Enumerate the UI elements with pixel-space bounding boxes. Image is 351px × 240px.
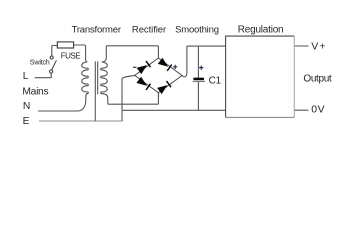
capacitor C1 bottom plate: [193, 80, 205, 82]
wire V+ output stub: [294, 45, 308, 47]
wire capacitor stem bottom: [197, 82, 199, 111]
svg-text:N: N: [23, 101, 30, 112]
wire E earth: [39, 120, 122, 122]
wire secondary top to rectifier: [102, 46, 158, 62]
wire fuse riser: [52, 46, 58, 57]
transformer T1 core right bar: [97, 61, 99, 94]
diode D1 top-left: [137, 65, 147, 74]
transformer T1 core left bar with earth connection: [94, 61, 96, 121]
svg-text:Regulation: Regulation: [238, 24, 284, 35]
circuit schematic: regulated power supply block diagram: [0, 0, 351, 144]
diode D4 bottom-right: [157, 85, 167, 94]
diode D2 top-right: [158, 58, 168, 67]
switch SW1 lever: [52, 60, 57, 70]
transformer T1 secondary winding: [101, 62, 108, 94]
svg-text:Smoothing: Smoothing: [175, 25, 219, 36]
switch SW1 lower contact: [50, 70, 53, 73]
wire N neutral: [38, 94, 87, 111]
wire L live: [35, 74, 51, 78]
svg-text:Output: Output: [303, 73, 332, 84]
rectifier bridge diamond: [135, 58, 182, 93]
fuse F1 body: [57, 42, 73, 48]
svg-text:Transformer: Transformer: [72, 25, 121, 36]
wire rectifier minus to 0V rail: [122, 75, 135, 121]
wire capacitor stem top: [197, 46, 199, 77]
capacitor C1 top plate: [193, 78, 204, 81]
regulation block U1: [226, 36, 295, 117]
svg-text:V+: V+: [311, 40, 325, 52]
svg-text:C1: C1: [209, 75, 222, 86]
svg-text:Switch: Switch: [30, 58, 50, 67]
wire 0V rail: [122, 109, 226, 111]
svg-text:E: E: [23, 116, 30, 127]
diode D3 bottom-left: [136, 77, 147, 86]
svg-text:Mains: Mains: [22, 87, 48, 98]
label minus at rectifier: [133, 66, 136, 68]
wire 0V output stub: [294, 109, 308, 111]
svg-text:0V: 0V: [311, 103, 325, 115]
switch SW1 upper contact: [50, 56, 53, 59]
wire fuse to primary: [74, 45, 87, 62]
svg-text:FUSE: FUSE: [61, 51, 81, 60]
capacitor C1 plus polarity: [199, 66, 203, 70]
wire secondary bottom to rectifier: [102, 93, 158, 104]
wire rectifier plus to V+ rail: [182, 46, 226, 77]
label plus at rectifier: [173, 65, 177, 69]
svg-text:Rectifier: Rectifier: [132, 25, 166, 36]
transformer T1 primary winding: [82, 62, 89, 94]
svg-text:L: L: [23, 71, 29, 82]
